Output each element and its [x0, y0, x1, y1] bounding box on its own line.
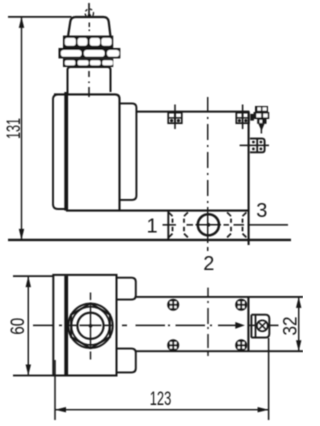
svg-text:32: 32	[281, 317, 302, 336]
port band top edge	[66, 210, 249, 212]
port 1 thread (hidden, dashed)	[169, 212, 188, 237]
dim 32 line	[296, 297, 301, 351]
plug gland dashed circle	[85, 9, 93, 17]
dim 123 extension left	[54, 360, 56, 420]
mounting screw right (side view)	[236, 105, 249, 130]
svg-text:60: 60	[8, 318, 29, 335]
manifold bar top edge + dim 32 top extension	[136, 296, 303, 298]
retaining nut hexagon	[71, 303, 110, 348]
coil axis centerline	[88, 71, 90, 97]
flow arrow on centerline	[235, 322, 245, 329]
svg-text:123: 123	[150, 389, 172, 410]
dim 123 line	[55, 407, 269, 412]
fixing screw hole bottom-right	[236, 340, 247, 351]
nut across-flats circle	[71, 307, 109, 345]
plug fin row 2	[59, 48, 121, 58]
block thick edge	[64, 276, 68, 375]
valve tab (side view)	[120, 103, 137, 199]
nut vertical crosshair	[90, 293, 92, 360]
dim 60 line	[26, 276, 31, 375]
body block outline	[53, 275, 116, 376]
dim 60 extension bottom	[13, 375, 53, 377]
coil main body	[54, 94, 120, 210]
manifold bar right edge	[247, 297, 249, 351]
dim 131 extension top	[8, 16, 72, 18]
coil body thick edge	[64, 92, 68, 211]
port 2 hole circle	[198, 214, 219, 235]
mounting screw left (side view)	[168, 105, 182, 130]
port 2 vertical centerline (plan)	[207, 288, 209, 356]
main horizontal centerline	[33, 324, 237, 326]
svg-text:2: 2	[203, 253, 214, 275]
svg-text:131: 131	[4, 118, 25, 139]
band separator line	[167, 211, 169, 240]
cap center tick	[88, 23, 90, 32]
nut bore circle	[77, 313, 103, 339]
valve tab lower (plan view)	[117, 349, 136, 373]
breather screw assembly (right of manifold)	[250, 106, 269, 134]
band horizontal centerline + port 3 leader	[163, 224, 289, 226]
dim 123 extension right	[268, 338, 270, 420]
manifold right edge	[248, 112, 250, 245]
pilot plug fitting (right side, lower)	[240, 139, 269, 153]
valve tab upper (plan view)	[117, 278, 136, 300]
port 3 thread (hidden, dashed)	[227, 212, 246, 237]
nut chamfer circle	[68, 304, 112, 348]
svg-text:3: 3	[256, 200, 267, 222]
fixing screw hole top-left	[168, 299, 179, 310]
dim 131 line	[19, 17, 24, 240]
armature tube upper coil section	[68, 67, 111, 95]
fixing screw hole bottom-left	[168, 340, 179, 351]
plug fin row 3	[63, 58, 113, 67]
manifold bar bottom edge + dim 32 bottom extension	[136, 350, 303, 352]
coil left housing	[53, 95, 66, 210]
fixing screw hole top-right	[236, 299, 247, 310]
nut center dot	[89, 324, 93, 328]
exhaust hex fitting (right end)	[251, 315, 269, 338]
manifold top edge	[136, 111, 249, 113]
port band bottom edge / dim 131 extension	[8, 239, 291, 241]
svg-text:1: 1	[146, 216, 157, 238]
manifold vertical centerline	[207, 97, 209, 251]
centerline plug axis	[88, 3, 90, 17]
plug fin row 1	[63, 36, 113, 48]
plug cap	[68, 17, 111, 37]
dim 60 extension top	[13, 275, 53, 277]
